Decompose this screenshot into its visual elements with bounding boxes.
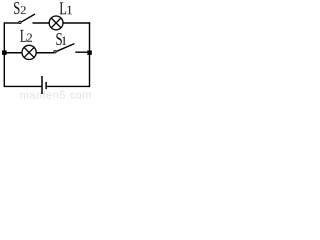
wire battery to bottom-right: [47, 85, 90, 87]
watermark manfen5.com: [21, 91, 91, 99]
wire L1 to top-right corner: [63, 22, 90, 24]
lamp L1: [49, 16, 63, 30]
wire top-left (corner to S2 pivot): [4, 22, 18, 24]
switch S2 pivot dot: [19, 21, 21, 23]
node junction right: [87, 50, 92, 55]
battery short plate: [45, 82, 47, 89]
switch S2 blade: [22, 14, 35, 22]
switch S1 blade: [57, 44, 75, 52]
right rail wire: [89, 22, 91, 87]
wire S2 to L1: [33, 22, 50, 24]
background: [0, 0, 92, 100]
wire left junction to L2: [4, 52, 22, 54]
left rail wire: [3, 22, 5, 87]
label S2: [14, 2, 26, 14]
lamp L2: [22, 45, 36, 59]
switch S1 pivot dot: [54, 51, 56, 53]
label L2: [20, 30, 32, 42]
wire L2 to S1: [36, 52, 54, 54]
label S1: [56, 33, 66, 45]
label L1: [60, 2, 72, 14]
node junction left: [2, 50, 7, 55]
battery long plate: [41, 76, 43, 94]
wire S1 to right junction: [75, 51, 89, 53]
wire bottom-left to battery: [4, 85, 41, 87]
